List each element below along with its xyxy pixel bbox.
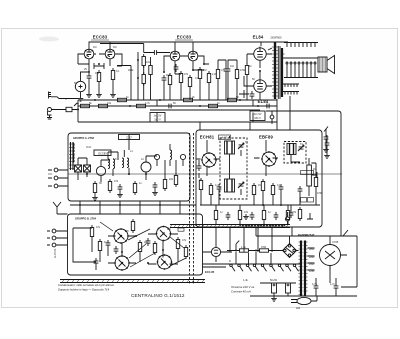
svg-text:1M: 1M [203,69,206,72]
svg-text:280v: 280v [309,248,315,251]
svg-text:EL84: EL84 [253,35,264,40]
svg-text:O.M.: O.M. [86,146,92,149]
svg-text:180 V: 180 V [154,119,161,122]
svg-text:ECC83: ECC83 [177,35,192,40]
svg-text:10n: 10n [230,65,235,68]
svg-text:50+50: 50+50 [270,279,278,282]
svg-text:ECC-85: ECC-85 [205,270,215,274]
svg-text:10n: 10n [146,61,151,64]
svg-text:0,1: 0,1 [116,70,120,73]
svg-text:1M: 1M [167,228,170,231]
svg-text:Tensione 220 V ca.: Tensione 220 V ca. [231,285,255,289]
svg-text:A.17: A.17 [222,137,228,140]
svg-text:1,4k: 1,4k [241,246,246,249]
svg-text:1M: 1M [113,46,116,49]
svg-text:GRUPPO A. 2763: GRUPPO A. 2763 [73,136,95,140]
svg-text:4,7k: 4,7k [145,102,150,105]
svg-text:4,7n: 4,7n [330,283,335,286]
svg-text:6,8: 6,8 [113,158,117,161]
svg-text:0,1: 0,1 [195,77,199,80]
svg-text:4,7n: 4,7n [312,283,317,286]
svg-text:ALT/P.O.: ALT/P.O. [54,248,57,258]
svg-text:EL84: EL84 [258,99,269,104]
svg-text:EBF89: EBF89 [259,135,274,140]
svg-text:Condensatori: mille nel telaio: Condensatori: mille nel telaio ed in pF … [58,283,114,287]
svg-text:RADDRIZZAT.: RADDRIZZAT. [298,233,315,237]
svg-text:220k: 220k [128,69,134,72]
svg-text:2,2k: 2,2k [212,73,217,76]
svg-text:1M: 1M [166,74,169,77]
svg-text:263/F500: 263/F500 [271,36,283,40]
svg-text:1M: 1M [93,46,96,49]
svg-text:ECH81: ECH81 [200,135,215,140]
svg-text:1M: 1M [313,168,316,171]
svg-text:125v: 125v [309,270,315,273]
svg-text:Supporto bobine in lega — Opus: Supporto bobine in lega — Opuscolo 714 [58,288,110,292]
svg-text:UY85: UY85 [332,241,339,244]
svg-text:0,1: 0,1 [277,184,281,187]
svg-text:3x1,5V: 3x1,5V [254,113,262,116]
svg-text:3x1,5V: 3x1,5V [154,115,162,118]
svg-text:470k: 470k [317,192,323,195]
svg-text:220: 220 [144,241,149,244]
svg-text:220v: 220v [309,256,315,259]
svg-text:180 V: 180 V [254,117,261,120]
svg-text:6,8: 6,8 [125,230,129,233]
svg-text:Corrente 40 mA: Corrente 40 mA [231,290,251,294]
svg-text:C.17: C.17 [126,135,132,139]
svg-text:R: R [229,260,231,263]
svg-text:ECC83: ECC83 [93,35,108,40]
svg-text:CENTRALINO G.1/1512: CENTRALINO G.1/1512 [131,293,185,298]
svg-text:ECC85: ECC85 [98,151,107,155]
svg-text:1M: 1M [258,184,261,187]
svg-text:GRUPPO B. 2764: GRUPPO B. 2764 [75,217,97,221]
svg-text:220: 220 [296,307,301,310]
svg-text:1,4k: 1,4k [243,279,248,282]
svg-text:0,5: 0,5 [221,69,225,72]
svg-text:15W: 15W [261,246,267,249]
svg-text:470k: 470k [240,69,246,72]
svg-text:160v: 160v [309,263,315,266]
